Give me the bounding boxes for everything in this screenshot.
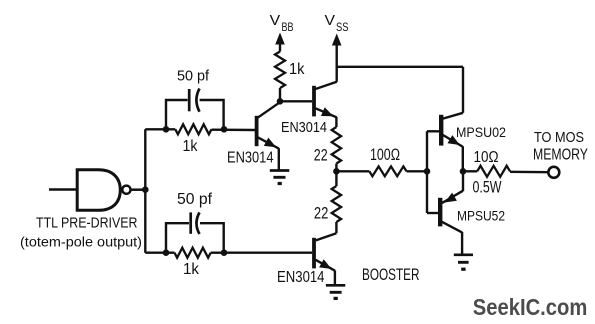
svg-text:10Ω: 10Ω [474,149,499,166]
svg-text:MEMORY: MEMORY [533,147,588,164]
svg-text:50 pf: 50 pf [177,67,210,84]
svg-text:1k: 1k [183,138,198,155]
svg-text:V: V [325,12,336,29]
svg-text:1k: 1k [183,261,200,278]
svg-text:1k: 1k [289,61,305,78]
svg-text:TTL PRE-DRIVER: TTL PRE-DRIVER [36,215,138,232]
svg-text:EN3014: EN3014 [281,119,327,136]
svg-text:BOOSTER: BOOSTER [362,266,420,284]
svg-text:22: 22 [314,146,328,164]
svg-text:50 pf: 50 pf [177,191,213,208]
svg-text:EN3014: EN3014 [227,149,274,166]
svg-text:TO MOS: TO MOS [534,129,584,146]
svg-text:(totem-pole output): (totem-pole output) [20,235,142,251]
svg-text:MPSU02: MPSU02 [456,125,506,140]
svg-text:SS: SS [336,22,349,34]
svg-text:0.5W: 0.5W [473,179,502,197]
svg-text:SeekIC.com: SeekIC.com [473,294,588,320]
svg-text:22: 22 [314,204,329,222]
svg-text:V: V [270,12,281,29]
svg-text:MPSU52: MPSU52 [457,208,505,223]
svg-text:EN3014: EN3014 [277,269,325,286]
svg-text:100Ω: 100Ω [370,146,400,164]
svg-text:BB: BB [282,22,294,34]
